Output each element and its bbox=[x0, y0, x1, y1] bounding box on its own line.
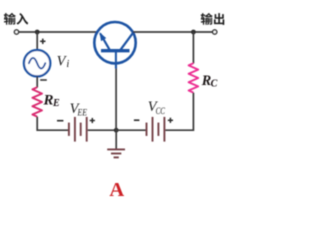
minus sign of VEE bbox=[57, 120, 63, 122]
label 输入 (input) bbox=[4, 13, 28, 25]
battery VEE bbox=[69, 117, 87, 142]
plus sign of VEE bbox=[90, 118, 95, 123]
wire: source Vi to resistor RE bbox=[36, 76, 38, 87]
output terminal bbox=[213, 30, 217, 34]
wire: VEE to ground junction bbox=[88, 129, 117, 131]
svg-text:CC: CC bbox=[156, 107, 166, 117]
label 输出 (output) bbox=[201, 13, 225, 25]
svg-text:E: E bbox=[52, 98, 60, 109]
wire: input terminal to transistor emitter bbox=[19, 31, 97, 33]
node: output junction bbox=[191, 30, 196, 35]
node: ground junction bbox=[114, 128, 119, 133]
transistor emitter arrowhead bbox=[99, 32, 106, 41]
svg-text:C: C bbox=[211, 78, 218, 89]
node: input junction bbox=[35, 30, 40, 35]
plus sign of VCC bbox=[168, 118, 173, 123]
transistor Q1 circle bbox=[94, 22, 135, 63]
transistor base lead (blue) bbox=[115, 51, 117, 69]
wire: collector to output junction bbox=[133, 31, 213, 33]
resistor RC zigzag bbox=[189, 63, 199, 92]
svg-text:R: R bbox=[43, 92, 54, 108]
source Vi circle bbox=[24, 50, 50, 76]
plus sign of source Vi bbox=[40, 39, 45, 44]
transistor collector lead bbox=[120, 32, 134, 51]
wire: RC down and left to battery VCC bbox=[165, 93, 193, 131]
minus sign of source Vi bbox=[40, 79, 47, 81]
wire: junction down to resistor RC bbox=[192, 32, 194, 64]
sine wave inside Vi bbox=[29, 58, 45, 69]
resistor RE zigzag bbox=[32, 87, 42, 116]
transistor emitter lead bbox=[100, 34, 110, 51]
wire: transistor base down to ground junction bbox=[115, 64, 117, 130]
input terminal bbox=[14, 30, 18, 34]
ground stem bbox=[115, 130, 117, 148]
transistor base bar bbox=[101, 49, 130, 52]
minus sign of VCC bbox=[134, 119, 140, 121]
battery VCC bbox=[147, 117, 165, 142]
wire: RE down and right to battery VEE bbox=[37, 117, 68, 131]
svg-text:A: A bbox=[109, 179, 124, 198]
ground bars bbox=[107, 149, 125, 157]
svg-text:EE: EE bbox=[77, 108, 87, 118]
svg-text:i: i bbox=[66, 59, 69, 70]
wire: ground junction to VCC bbox=[116, 129, 145, 131]
wire: junction down to source Vi bbox=[36, 32, 38, 51]
